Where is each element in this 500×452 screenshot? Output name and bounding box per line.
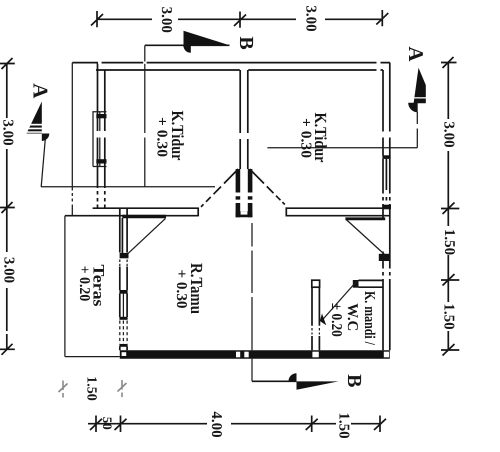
wall right outer face	[389, 63, 391, 351]
section marker B bottom hook	[289, 373, 297, 381]
svg-text:B: B	[343, 374, 365, 387]
tick left top	[0, 58, 15, 69]
svg-text:A: A	[404, 46, 428, 62]
section marker A right arrow	[414, 68, 426, 103]
front wall window mullion	[122, 294, 124, 318]
top wall corner white notches	[377, 62, 381, 64]
door D4 tip block	[320, 314, 326, 326]
wall band end cap left stub	[197, 207, 199, 216]
section marker B top hook	[183, 45, 191, 53]
section marker A left hook	[42, 134, 50, 142]
wall band bedrooms/south top face	[93, 207, 390, 209]
section line A left vertical	[41, 140, 45, 187]
window W2 lines	[383, 159, 390, 201]
door jamb bars middle wall	[236, 169, 253, 217]
wall left outer face	[97, 63, 99, 209]
faint terrace dim tick right	[118, 380, 127, 397]
dimension line left	[6, 64, 8, 350]
section marker A right hook	[408, 103, 418, 113]
tick left bottom	[0, 344, 15, 355]
section marker B bottom arrowhead	[297, 381, 339, 389]
door D3 hinge block	[379, 254, 390, 261]
door D2 entry triangle top edge	[122, 215, 166, 219]
section line A right vertical	[416, 112, 418, 148]
wall middle between bedrooms	[240, 70, 248, 169]
section line A right horizontal	[267, 147, 417, 149]
window W2 right wall blocks	[382, 155, 390, 159]
tick bottom 2	[115, 416, 127, 433]
bathroom top wall door jamb	[353, 280, 359, 288]
svg-text:1.50: 1.50	[336, 412, 352, 438]
terrace outline left edge	[64, 216, 66, 357]
door D1 right leaf diagonal	[250, 169, 285, 205]
svg-text:+ 0.30: + 0.30	[173, 270, 189, 309]
eave line left	[71, 63, 73, 216]
dimension line top	[97, 18, 382, 20]
tick bottom 3	[306, 416, 318, 433]
tick top right	[376, 10, 388, 26]
svg-text:+ 0.30: + 0.30	[154, 117, 170, 157]
front wall jamb blocks	[119, 290, 127, 294]
section marker A left arrow	[27, 102, 42, 134]
section marker B top arrowhead	[184, 31, 230, 45]
faint terrace dim tick left	[59, 381, 68, 398]
door D1 left leaf diagonal	[201, 169, 238, 207]
wall band end cap right stub	[285, 207, 287, 216]
tick right third	[441, 274, 459, 286]
wall band bedrooms/south bottom face	[65, 215, 390, 217]
door D3 bedroom2 thick top edge	[345, 217, 385, 220]
svg-text:± 0.20: ± 0.20	[328, 303, 344, 337]
door D2 foot block	[120, 253, 129, 258]
svg-text:+ 0.20: + 0.20	[76, 266, 92, 302]
bottom wall black band	[120, 350, 390, 358]
bottom wall white notches	[122, 352, 127, 356]
tick top middle	[234, 12, 246, 28]
bathroom left wall dash stubs	[312, 328, 319, 335]
section marker B bottom tail	[252, 380, 297, 382]
bathroom left wall	[312, 287, 319, 350]
svg-text:3.00: 3.00	[0, 119, 15, 145]
svg-text:3.00: 3.00	[158, 7, 174, 33]
svg-text:3.00: 3.00	[441, 121, 457, 147]
svg-text:3.00: 3.00	[1, 257, 17, 283]
section marker B top tail	[145, 44, 230, 46]
wall right inner face	[382, 70, 384, 350]
bathroom corner post	[312, 280, 320, 287]
window W1 sill blocks	[96, 114, 106, 118]
front wall inner face	[126, 208, 128, 350]
terrace bottom edge	[65, 356, 120, 358]
tick top left	[91, 11, 103, 27]
tick bottom 4	[374, 416, 386, 433]
wall top outer face	[72, 62, 390, 64]
dimension line bottom	[88, 423, 381, 425]
tick right bottom	[441, 344, 459, 356]
window W1 mullion lines	[99, 112, 101, 167]
svg-text:A: A	[29, 83, 53, 99]
tick left middle	[0, 202, 15, 213]
svg-text:1.50: 1.50	[441, 229, 457, 255]
tick right second	[441, 203, 459, 215]
door D4 bathroom leaf	[322, 282, 356, 320]
dimension line right	[447, 63, 449, 351]
section line B bottom solid	[251, 359, 253, 382]
svg-text:K. mandi /: K. mandi /	[361, 291, 377, 346]
svg-text:W.C: W.C	[344, 303, 360, 331]
front wall west of living room outer face	[119, 208, 121, 350]
svg-text:1.50: 1.50	[441, 303, 457, 329]
svg-text:B: B	[235, 36, 257, 49]
bathroom top wall faces	[359, 280, 384, 287]
wall left inner face	[104, 70, 106, 208]
svg-text:1.50: 1.50	[84, 376, 99, 401]
svg-text:3.00: 3.00	[303, 5, 319, 31]
front wall lower dashed lines	[120, 321, 127, 345]
tick right top	[441, 57, 457, 68]
door D3 leaf diagonal	[346, 220, 384, 255]
door D2 leaf vertical edge	[121, 218, 123, 254]
door D2 leaf hypotenuse	[127, 218, 165, 254]
section line B top vertical	[144, 46, 146, 187]
window W1 left wall frame	[93, 112, 107, 167]
svg-text:4.00: 4.00	[208, 411, 224, 437]
tick bottom 1	[90, 416, 102, 433]
front wall dash segments	[120, 260, 127, 267]
svg-text:50: 50	[100, 417, 115, 430]
svg-text:+ 0.30: + 0.30	[298, 118, 314, 158]
svg-text:K.Tidur: K.Tidur	[168, 111, 187, 161]
wall top inner face	[96, 69, 383, 71]
section line A left horizontal	[41, 186, 215, 188]
section line B dashed through living room	[251, 223, 253, 350]
door jamb foot middle wall	[236, 211, 253, 217]
